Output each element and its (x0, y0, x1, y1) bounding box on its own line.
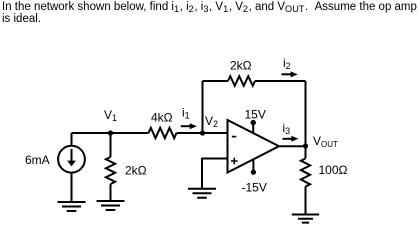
svg-text:6mA: 6mA (25, 153, 50, 167)
svg-text:-15V: -15V (242, 181, 267, 195)
svg-text:i2: i2 (283, 56, 291, 71)
svg-text:15V: 15V (245, 108, 266, 122)
svg-text:VOUT: VOUT (313, 134, 338, 149)
svg-text:i1: i1 (182, 106, 190, 121)
svg-text:i3: i3 (283, 121, 291, 136)
svg-text:2kΩ: 2kΩ (230, 58, 252, 72)
svg-text:V1: V1 (104, 108, 117, 123)
svg-text:100Ω: 100Ω (319, 163, 348, 177)
svg-text:4kΩ: 4kΩ (151, 110, 173, 124)
svg-text:V2: V2 (205, 114, 218, 129)
svg-text:2kΩ: 2kΩ (125, 164, 147, 178)
